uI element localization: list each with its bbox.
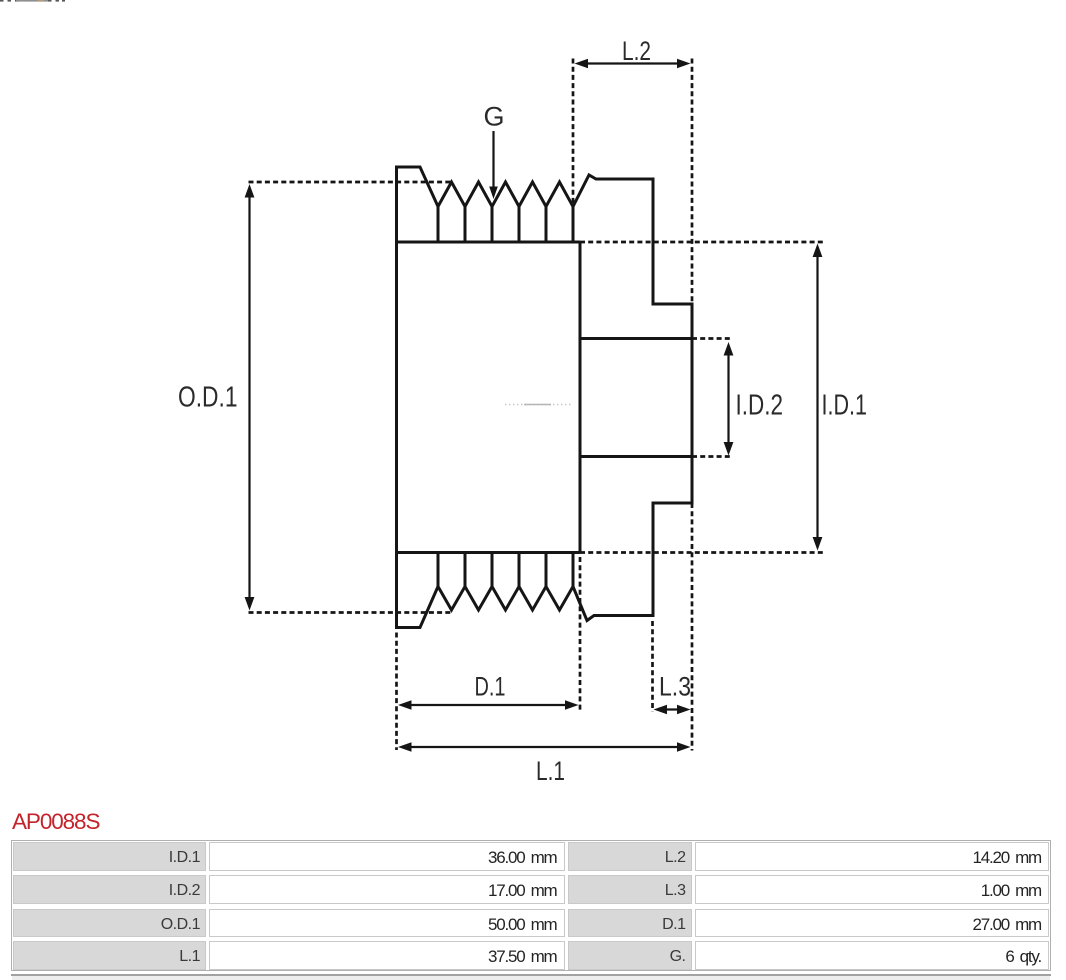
svg-text:D.1: D.1 xyxy=(475,672,506,702)
svg-text:O.D.1: O.D.1 xyxy=(178,382,238,414)
svg-text:I.D.2: I.D.2 xyxy=(736,390,784,422)
svg-text:L.1: L.1 xyxy=(536,756,565,786)
svg-text:G: G xyxy=(483,102,504,132)
svg-text:I.D.1: I.D.1 xyxy=(822,390,868,422)
svg-text:L.3: L.3 xyxy=(659,672,691,702)
svg-text:L.2: L.2 xyxy=(622,36,651,66)
